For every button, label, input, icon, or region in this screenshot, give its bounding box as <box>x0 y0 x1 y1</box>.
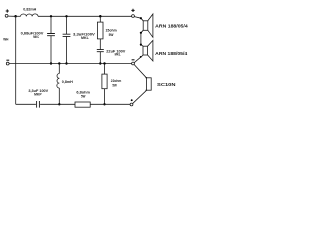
wire bottom rail left <box>16 103 36 105</box>
wire speaker1 minus lead <box>141 30 143 33</box>
wire 22ohm upper lead <box>104 64 106 75</box>
speaker SC10N tweeter <box>147 78 152 90</box>
minus sign at woofer terminal <box>132 59 135 61</box>
wire bottom rail mid <box>40 103 75 105</box>
capacitor 3,3uF/100V MKL <box>63 34 71 36</box>
junction tweeter top lead <box>146 77 147 78</box>
wire bottom rail right <box>90 103 130 105</box>
junction cap2 top <box>65 15 67 17</box>
wire cap2 upper lead <box>66 16 68 34</box>
junction shunt inductor bottom <box>58 103 60 105</box>
junction 22ohm bottom <box>103 103 105 105</box>
wire 15ohm to 22uF <box>99 39 101 50</box>
wire 22uF lower lead <box>99 52 101 64</box>
junction speaker1 minus <box>140 32 142 34</box>
wire speaker2 minus lead <box>134 55 143 63</box>
junction shunt inductor top <box>58 62 60 64</box>
junction resistor 22ohm top <box>103 62 105 64</box>
plus sign at input <box>6 9 9 12</box>
svg-text:5W: 5W <box>112 83 117 87</box>
capacitor 3,3uF 100V MKP <box>37 101 40 108</box>
speaker ARN 188/05/4 lower <box>143 46 148 55</box>
minus sign at input <box>6 59 9 61</box>
junction cap1 top <box>50 15 52 17</box>
svg-text:MKP: MKP <box>34 93 42 97</box>
junction resistor 15ohm top <box>99 15 102 18</box>
svg-text:5W: 5W <box>81 94 86 98</box>
inductor 0,82mH <box>21 14 39 16</box>
svg-text:WH: WH <box>3 36 8 41</box>
wire speaker2 plus lead <box>141 45 143 47</box>
node woofer - output terminal <box>132 62 135 65</box>
plus sign at woofer terminal <box>131 9 134 12</box>
svg-text:MKC: MKC <box>33 35 39 39</box>
wire cap1 lower lead <box>50 36 52 64</box>
wire cap1 upper lead <box>50 16 52 33</box>
node We + input terminal <box>5 14 8 17</box>
speaker ARN 188/05/4 upper <box>143 21 148 31</box>
svg-text:0,82mH: 0,82mH <box>23 8 36 12</box>
resistor 6,8ohm 5W <box>75 102 90 107</box>
wire 15ohm upper lead <box>99 16 101 22</box>
junction cap1 bottom <box>50 62 52 64</box>
junction tweeter bottom lead <box>146 90 147 91</box>
node woofer + output terminal <box>132 15 135 18</box>
junction cap2 bottom <box>65 62 67 64</box>
svg-text:ARN 188/05/4: ARN 188/05/4 <box>155 51 187 56</box>
inductor 0,8mH <box>57 74 59 89</box>
wire shunt inductor upper lead <box>58 64 60 74</box>
capacitor 22uF 100V MKL <box>97 50 104 52</box>
wire top rail <box>38 15 132 17</box>
plus dot at tweeter terminal <box>131 99 133 101</box>
wire tweeter return diagonal <box>133 90 147 103</box>
node We - input terminal <box>6 62 9 65</box>
wire left vertical rail <box>15 16 17 104</box>
wire mid rail minus bus <box>9 63 131 65</box>
wire speaker1 plus lead <box>141 18 143 21</box>
svg-text:ARN 188/05/4: ARN 188/05/4 <box>155 24 188 29</box>
wire cap2 lower lead <box>66 37 68 64</box>
wire tweeter feed diagonal from woofer minus terminal <box>134 65 146 78</box>
svg-text:MKL: MKL <box>115 53 121 57</box>
resistor 22ohm 5W <box>102 74 107 89</box>
svg-text:5W: 5W <box>109 32 114 37</box>
junction speaker2 minus <box>140 56 142 58</box>
wire terminal to speaker1 <box>134 17 141 19</box>
wire 22ohm lower lead <box>104 89 106 105</box>
svg-text:0,8mH: 0,8mH <box>62 80 74 84</box>
wire input to junction <box>8 15 14 17</box>
capacitor 0,68uF/100V MKC <box>47 34 55 36</box>
svg-text:SC10N: SC10N <box>157 82 176 87</box>
wire series link speaker1 to speaker2 <box>140 33 142 45</box>
wire shunt inductor lower lead <box>58 88 60 104</box>
junction speaker1 plus lead <box>140 17 142 19</box>
junction speaker2 plus <box>140 44 142 46</box>
wire junction to inductor <box>15 15 21 17</box>
resistor 15ohm 5W <box>97 22 103 39</box>
junction 22uF bottom <box>99 62 101 64</box>
svg-text:22ohm: 22ohm <box>111 79 122 83</box>
svg-text:MKL: MKL <box>81 36 89 40</box>
junction input node <box>14 15 17 18</box>
node tweeter + output terminal <box>130 103 133 106</box>
